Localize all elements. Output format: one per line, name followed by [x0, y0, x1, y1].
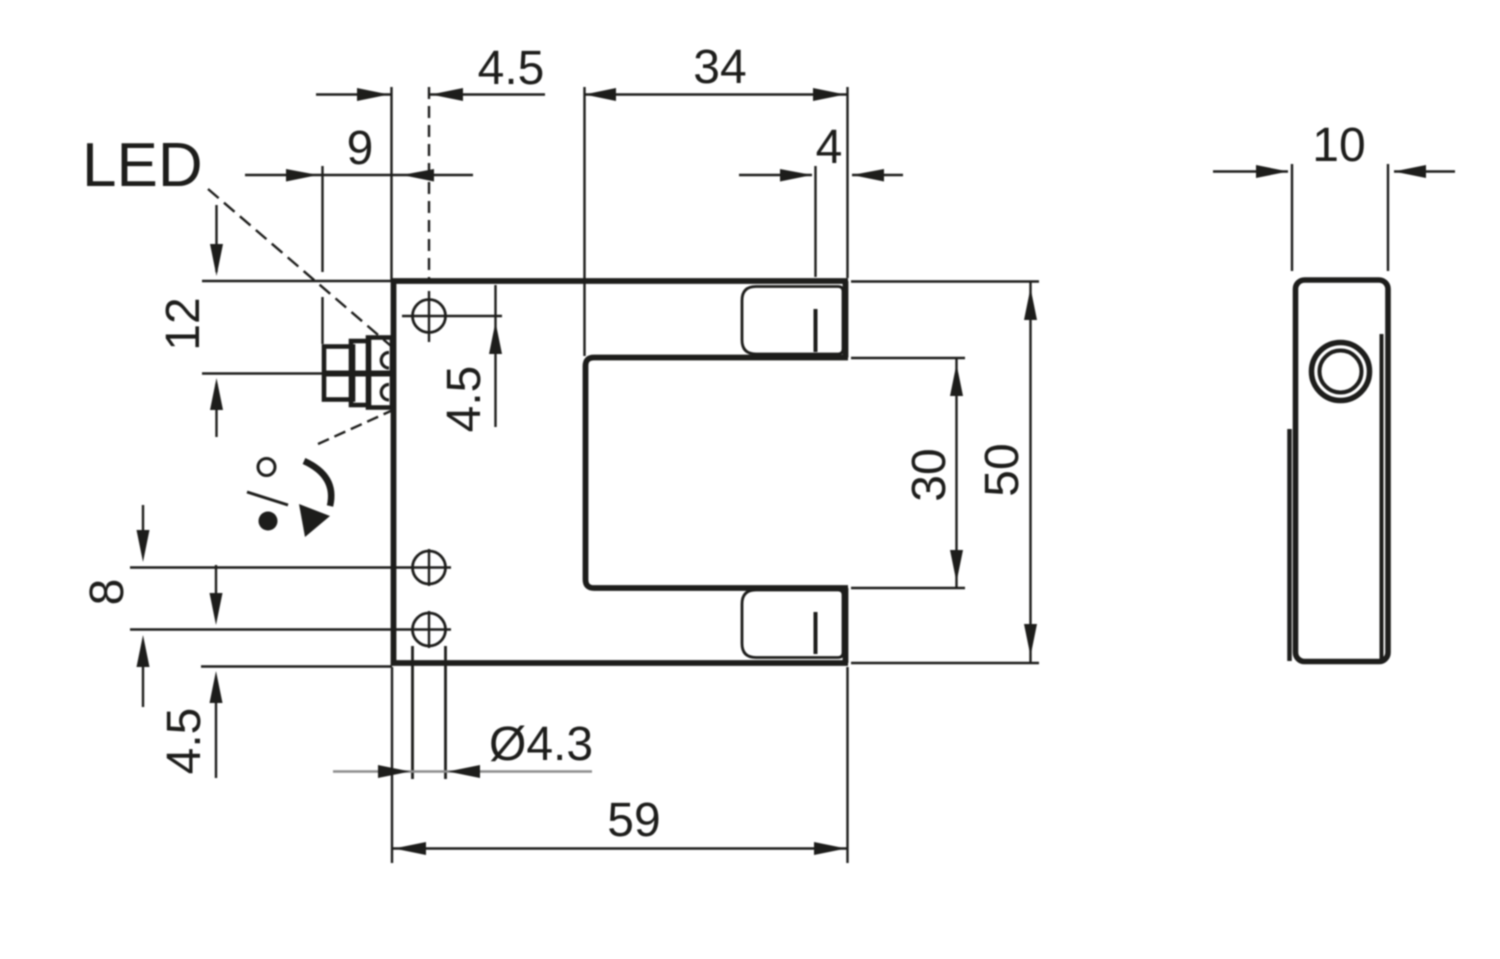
front view body outline: [391, 279, 848, 666]
dimension 4.5 vertical (hole offset): [494, 285, 496, 427]
wire top edge: [391, 278, 848, 284]
side view LED bushing outer: [1312, 343, 1370, 401]
svg-text:12: 12: [157, 297, 210, 350]
adjuster dot: [259, 512, 278, 531]
svg-text:4: 4: [816, 121, 843, 174]
svg-text:4.5: 4.5: [158, 708, 211, 775]
dimension 12: [202, 205, 391, 437]
svg-text:50: 50: [976, 443, 1029, 496]
lower sensing window: [742, 590, 843, 658]
svg-text:30: 30: [903, 448, 956, 501]
dimension 50: [851, 281, 1039, 663]
svg-text:Ø4.3: Ø4.3: [489, 718, 593, 771]
svg-text:4.5: 4.5: [438, 366, 491, 433]
dimension 8: [142, 505, 144, 707]
hole H3 centerline horizontal (ext for dim 8 / 4.5): [130, 628, 451, 630]
svg-text:59: 59: [607, 794, 660, 847]
lower window optical axis line: [814, 612, 818, 654]
upper window optical axis line: [814, 309, 818, 352]
wire left edge: [391, 279, 397, 666]
svg-text:10: 10: [1312, 119, 1365, 172]
side view left step line: [1287, 429, 1292, 661]
adjuster slash: [247, 492, 288, 505]
LED indicator symbol: [322, 338, 394, 408]
svg-text:9: 9: [347, 122, 374, 175]
dimension 34: [584, 87, 848, 356]
adjuster rotate arrow: [304, 461, 331, 506]
hole edge extension right (for dia 4.3): [444, 646, 447, 779]
LED leader line: [208, 189, 391, 346]
hole H2 crosshair vertical: [428, 549, 430, 586]
side view right step line: [1380, 334, 1384, 659]
dimension 4.5 bottom: [201, 565, 392, 778]
dimension 10 (side view): [1213, 164, 1455, 271]
mounting hole H1: [413, 300, 446, 333]
svg-text:8: 8: [81, 579, 134, 606]
mounting hole H3: [413, 613, 446, 646]
adjuster state ring: [258, 459, 275, 476]
hole H2 centerline horizontal (ext for dim 8): [130, 566, 451, 568]
hole H3 crosshair vertical: [428, 611, 430, 648]
hole edge extension left (for dia 4.3): [411, 646, 414, 779]
side view body: [1296, 280, 1389, 662]
hole H1 crosshair horizontal: [402, 315, 502, 317]
side view LED bushing inner: [1320, 351, 1362, 393]
slot U outline: [586, 358, 849, 589]
dimension dia 4.3 leader: [333, 770, 592, 772]
dimension 9: [245, 166, 473, 344]
dimension 4.5 top: [316, 87, 545, 281]
dimension 59: [392, 667, 848, 863]
hole H1 crosshair vertical: [428, 291, 430, 342]
dimension 30: [851, 358, 965, 588]
mounting hole H2: [413, 551, 446, 584]
svg-text:4.5: 4.5: [478, 42, 545, 95]
upper sensing window: [742, 287, 843, 355]
dimension 4: [739, 166, 903, 277]
adjuster leader line: [318, 410, 393, 444]
wire bottom edge: [391, 660, 848, 666]
wire right edge lower arm: [843, 588, 849, 663]
svg-text:LED: LED: [82, 131, 203, 200]
wire right edge upper arm: [843, 281, 849, 358]
svg-text:34: 34: [693, 41, 746, 94]
